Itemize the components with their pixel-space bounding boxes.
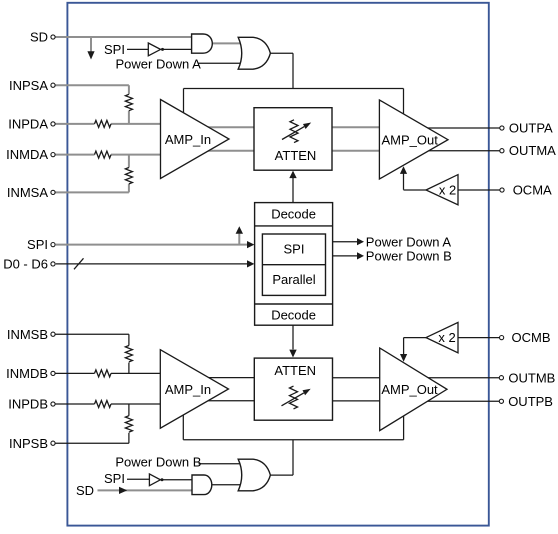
svg-text:AMP_Out: AMP_Out xyxy=(381,382,438,397)
svg-text:x 2: x 2 xyxy=(438,330,455,345)
svg-text:ATTEN: ATTEN xyxy=(275,148,317,163)
svg-text:Decode: Decode xyxy=(271,307,316,322)
svg-text:AMP_Out: AMP_Out xyxy=(382,132,439,147)
svg-text:INMDA: INMDA xyxy=(6,147,48,162)
svg-text:x 2: x 2 xyxy=(439,182,456,197)
svg-text:SD: SD xyxy=(30,30,48,45)
svg-text:Power Down B: Power Down B xyxy=(115,455,201,470)
svg-text:INPSB: INPSB xyxy=(9,436,48,451)
svg-text:INMDB: INMDB xyxy=(6,366,48,381)
svg-text:OUTPB: OUTPB xyxy=(508,394,553,409)
svg-text:SPI: SPI xyxy=(284,242,305,257)
svg-text:AMP_In: AMP_In xyxy=(165,132,211,147)
svg-text:OCMA: OCMA xyxy=(513,183,552,198)
svg-text:OUTMA: OUTMA xyxy=(509,143,556,158)
svg-text:D0 - D6: D0 - D6 xyxy=(3,257,48,272)
svg-text:SPI: SPI xyxy=(104,42,125,57)
svg-text:INPDA: INPDA xyxy=(8,117,48,132)
svg-text:Parallel: Parallel xyxy=(272,272,315,287)
svg-text:SPI: SPI xyxy=(104,471,125,486)
svg-text:Power Down B: Power Down B xyxy=(366,249,452,264)
svg-text:OCMB: OCMB xyxy=(512,330,551,345)
svg-text:INPDB: INPDB xyxy=(8,397,48,412)
svg-text:INMSA: INMSA xyxy=(7,185,49,200)
svg-text:INMSB: INMSB xyxy=(7,327,48,342)
svg-text:Decode: Decode xyxy=(271,207,316,222)
svg-text:AMP_In: AMP_In xyxy=(165,382,211,397)
svg-text:SPI: SPI xyxy=(27,237,48,252)
svg-text:ATTEN: ATTEN xyxy=(274,363,316,378)
svg-text:OUTMB: OUTMB xyxy=(508,370,555,385)
svg-text:Power Down A: Power Down A xyxy=(116,56,202,71)
svg-text:INPSA: INPSA xyxy=(9,78,48,93)
svg-text:SD: SD xyxy=(76,483,94,498)
svg-text:Power Down A: Power Down A xyxy=(366,234,452,249)
svg-text:OUTPA: OUTPA xyxy=(509,121,553,136)
